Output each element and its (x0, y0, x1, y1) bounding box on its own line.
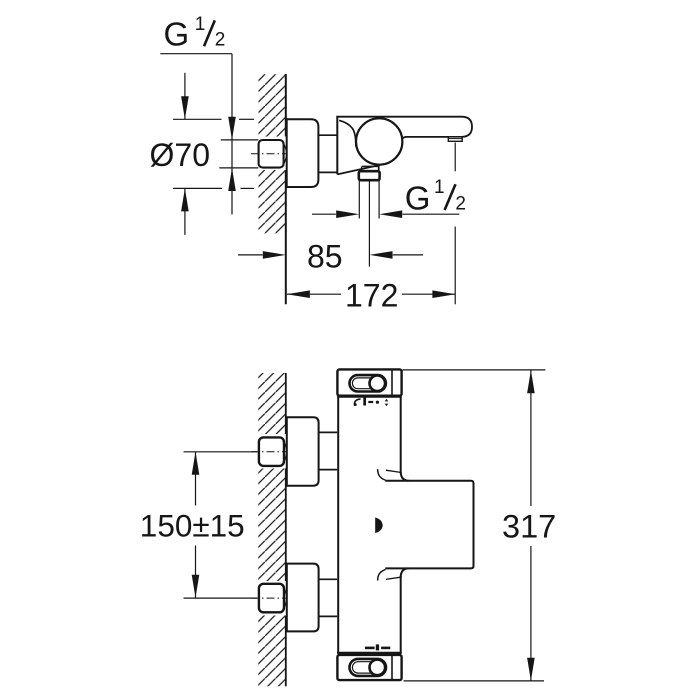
svg-text:85: 85 (307, 238, 343, 274)
lower connection block (287, 564, 319, 632)
svg-text:1: 1 (195, 14, 206, 35)
connecting neck lines (318, 134, 337, 136)
shower port boss top (362, 165, 379, 167)
mousseur mark on housing (375, 518, 383, 534)
svg-text:Ø70: Ø70 (150, 137, 210, 173)
dimension 317 (403, 369, 546, 371)
economy icons row (above bottom cap) (365, 647, 375, 650)
body bottom slant edge (337, 165, 378, 174)
dimension D70: arrows (184, 73, 186, 120)
spout rounded tip (462, 117, 473, 137)
dimension 150+-15 (195, 452, 197, 506)
dimension 85 (238, 254, 263, 256)
union nipple arc (283, 143, 287, 165)
top inner fillet into column (401, 472, 409, 481)
upper union centerline (184, 451, 258, 453)
svg-text:172: 172 (345, 277, 398, 313)
control knob (circle, side view) (356, 118, 402, 164)
lower supply union nut (259, 584, 284, 613)
escutcheon flange on wall (side view) (287, 119, 319, 187)
dimension G 1/2 outlet: lines and arrows (312, 213, 336, 215)
svg-text:1: 1 (434, 177, 445, 198)
extension line from aerator (454, 143, 456, 172)
control icons row (below top cap) (355, 399, 361, 404)
svg-text:317: 317 (502, 508, 556, 544)
wall section (front view), hatched (258, 373, 286, 686)
thermostat body column (337, 397, 402, 653)
spout underside (402, 137, 462, 139)
upper supply union nut (259, 437, 284, 466)
union nut behind wall (side view) (259, 140, 284, 168)
mixer middle housing (wide part) (385, 481, 473, 569)
shower outlet pipe outlines (358, 180, 360, 218)
svg-text:2: 2 (455, 193, 466, 214)
shower outlet centerline (368, 180, 370, 266)
faucet body top edge (336, 116, 461, 118)
wall face line (front view) (285, 373, 287, 686)
aerator outlet (448, 137, 462, 141)
svg-text:2: 2 (215, 29, 226, 50)
bottom cap toggle capsule (350, 659, 387, 676)
faucet body left edge (336, 117, 338, 175)
top cap toggle capsule (350, 375, 386, 391)
bottom inner fillet into column (401, 568, 409, 577)
lower union centerline (184, 597, 258, 599)
svg-text:G: G (164, 15, 190, 52)
union nut top extension line (221, 139, 259, 141)
body shoulder fillet curve (339, 120, 356, 146)
lower neck lines (319, 578, 339, 580)
shower port right edge (378, 165, 380, 171)
bottom-left moulded curve (378, 569, 386, 580)
top cap (shower outlet block) (337, 369, 401, 395)
svg-text:G: G (405, 179, 431, 216)
upper connection block (287, 417, 319, 485)
top-left moulded curve (378, 469, 386, 480)
union centerline (dash-dot) (251, 153, 288, 155)
dimension D70: extension lines (173, 118, 222, 120)
wall face line (side view) (285, 74, 287, 304)
wall section (side view), hatched (259, 74, 287, 234)
union nut bottom extension line (219, 167, 258, 169)
bottom cap (bath outlet block) (337, 655, 401, 680)
shower port collar (359, 171, 380, 180)
leader line from G 1/2 to union (160, 53, 232, 55)
svg-text:150±15: 150±15 (140, 508, 245, 544)
upper neck lines (319, 431, 339, 433)
